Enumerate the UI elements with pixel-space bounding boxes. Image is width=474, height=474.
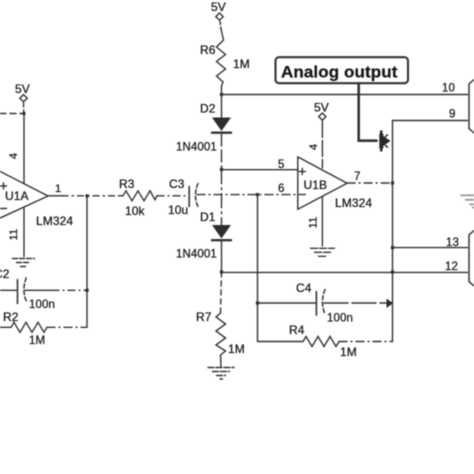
arrow C4 into net: [387, 299, 394, 309]
svg-text:10u: 10u: [168, 203, 188, 217]
wire R6 junction to D2: [221, 95, 223, 119]
wire C3 to U1B pin6: [197, 194, 298, 196]
node pin13 junction: [391, 246, 394, 249]
ground U1A: [13, 259, 35, 267]
svg-text:10k: 10k: [125, 204, 146, 218]
power 5V left diamond: [20, 95, 27, 102]
resistor R4: [258, 337, 340, 347]
wire R2 right lead: [47, 326, 87, 328]
wire node A down through pin6 crossing: [221, 170, 223, 225]
svg-text:U1A: U1A: [5, 189, 29, 203]
svg-text:LM324: LM324: [335, 196, 372, 210]
wire R3 to C3: [157, 195, 189, 197]
svg-text:D1: D1: [200, 210, 216, 224]
wire U1B feedback branch vertical: [257, 195, 259, 342]
svg-text:100n: 100n: [29, 299, 55, 311]
node pin12 crossing: [391, 270, 394, 273]
connector bracket pins 10/9: [469, 80, 474, 134]
resistor R7: [216, 313, 226, 355]
node R6-D2 junction: [220, 93, 223, 96]
power 5V U1B diamond: [319, 113, 326, 120]
op-amp U1B plus input mark: [299, 169, 305, 175]
wire C4 left lead: [258, 302, 316, 304]
svg-text:12: 12: [445, 261, 458, 273]
svg-text:R3: R3: [119, 177, 135, 191]
svg-text:1M: 1M: [228, 342, 245, 356]
wire R7 to ground: [220, 355, 223, 367]
wire U1B output pin7: [347, 182, 392, 184]
ground partial at right edge: [461, 195, 474, 207]
svg-text:1M: 1M: [233, 57, 250, 71]
node C4 left junction: [256, 301, 259, 304]
ground R7: [208, 368, 234, 380]
svg-text:U1B: U1B: [304, 178, 328, 192]
wire C2 right lead: [25, 289, 52, 291]
svg-text:7: 7: [354, 171, 361, 183]
wire C2 left lead: [0, 289, 17, 291]
svg-text:4: 4: [8, 153, 20, 159]
svg-text:1N4001: 1N4001: [176, 142, 217, 154]
wire analog output drop (thick): [359, 84, 377, 141]
svg-text:LM324: LM324: [36, 214, 73, 228]
svg-text:10: 10: [442, 83, 455, 95]
svg-text:C4: C4: [296, 281, 312, 295]
resistor R2: [0, 322, 47, 332]
ground U1B: [311, 248, 335, 256]
node 5V-left junction: [23, 112, 26, 115]
wire U1B pin5 line: [222, 169, 298, 171]
svg-text:R4: R4: [289, 323, 305, 337]
node pin6 branch junction: [256, 193, 259, 196]
wire pin 12 line: [222, 271, 468, 273]
wire U1A pin11 to ground: [23, 207, 25, 257]
capacitor C4 plates: [315, 292, 317, 316]
svg-text:C2: C2: [0, 267, 10, 281]
svg-text:1M: 1M: [340, 345, 357, 359]
node B junction (D1/R7/pin12): [220, 270, 223, 273]
node U1A output feedback junction: [86, 194, 89, 197]
wire 5V to R6: [220, 22, 221, 30]
svg-text:5V: 5V: [211, 0, 226, 14]
op-amp U1B minus input mark: [299, 194, 305, 196]
wire U1B pin4: [321, 122, 323, 169]
op-amp U1B: [298, 157, 347, 209]
wire U1A output: [48, 195, 62, 197]
svg-text:6: 6: [278, 183, 285, 195]
op-amp U1A plus input mark: [1, 183, 7, 189]
svg-text:1N4001: 1N4001: [176, 249, 217, 261]
resistor R3: [120, 191, 157, 201]
svg-text:R6: R6: [200, 43, 216, 57]
svg-text:4: 4: [308, 144, 320, 150]
probe arrow at analog output: [379, 134, 390, 149]
svg-text:R2: R2: [3, 310, 19, 324]
svg-text:11: 11: [308, 217, 320, 229]
svg-text:13: 13: [446, 237, 459, 249]
node A junction (D2/D1/pin5): [220, 168, 223, 171]
capacitor C2 plates: [17, 280, 19, 304]
wire C4 right lead: [324, 302, 388, 304]
svg-text:5V: 5V: [15, 82, 30, 96]
wire pin 10 line: [222, 94, 468, 96]
svg-text:D2: D2: [200, 102, 216, 116]
svg-text:1: 1: [55, 183, 61, 195]
svg-text:1M: 1M: [29, 335, 45, 347]
diode D2: [212, 118, 231, 132]
svg-text:5V: 5V: [314, 101, 329, 115]
diode D1: [212, 225, 231, 239]
wire U1A feedback vertical: [86, 196, 88, 327]
svg-text:9: 9: [449, 109, 456, 121]
svg-text:100n: 100n: [327, 313, 353, 325]
svg-text:5: 5: [278, 159, 285, 171]
svg-text:11: 11: [8, 229, 20, 241]
wire U1B pin11 to ground: [321, 197, 323, 247]
op-amp U1A minus input mark: [1, 208, 7, 210]
wire U1A output dashed continuation: [62, 195, 120, 197]
power 5V middle diamond: [216, 13, 223, 20]
wire horizontal into 5V node: [0, 113, 24, 115]
wire node B to R7: [221, 272, 222, 313]
label box Analog output: [276, 57, 409, 83]
node pin7 junction: [391, 181, 394, 184]
svg-text:R7: R7: [196, 310, 212, 324]
wire D1 to node B: [221, 242, 223, 273]
wire pin 9 line: [393, 120, 468, 122]
wire U1A pin4: [23, 114, 25, 184]
wire output net vertical: [392, 121, 394, 342]
capacitor C3 plates: [188, 187, 190, 207]
wire D2 to node A: [221, 134, 223, 170]
connector bracket pins 13/12: [469, 231, 474, 287]
wire pin 13 line: [393, 247, 468, 249]
resistor R6: [217, 29, 226, 95]
wire 5V left stem: [23, 103, 25, 113]
wire R4 right lead: [339, 341, 393, 343]
svg-text:Analog output: Analog output: [281, 63, 398, 82]
svg-text:C3: C3: [169, 177, 185, 191]
op-amp U1A: [0, 158, 48, 230]
node C2 feedback junction: [86, 289, 89, 292]
